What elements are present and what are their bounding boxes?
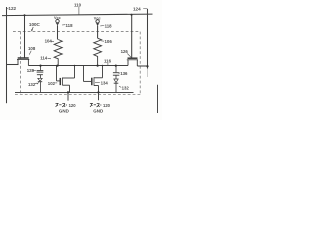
svg-text:104: 104 [45,39,53,44]
wire GND rail [15,92,134,94]
label pad katakana left (アース-) [56,103,68,107]
node dot border/Q126 [146,65,148,67]
transistor Q126 (top right) [127,58,138,66]
power Vcc right [96,20,99,39]
node dot 116/R106 [97,65,99,67]
svg-text:136: 136 [120,71,128,76]
svg-text:Vcc: Vcc [94,16,101,20]
lead for label 102 [55,82,57,84]
resistor R104 [54,40,62,66]
lead for label 122 [7,7,9,9]
diode D132 left [38,78,42,92]
stray vertical line bottom right [157,85,159,113]
svg-text:132: 132 [28,82,36,87]
lead for label 106 [101,40,104,42]
lead for label 118 left [62,24,65,26]
capacitor C136 (right stack) [113,66,119,80]
svg-text:120: 120 [69,103,77,108]
lead for label 118 right [100,25,104,27]
node dot rail/GND left [67,91,69,93]
svg-text:110: 110 [74,2,82,7]
svg-text:118: 118 [66,23,74,28]
svg-text:Vcc: Vcc [54,16,61,20]
svg-text:102: 102 [48,81,56,86]
wire Q126 right leg to border [137,65,147,67]
wire rail to Q108 gate [24,15,26,58]
svg-text:118: 118 [105,24,113,29]
transistor Q134 [84,66,103,93]
svg-text:132: 132 [122,85,130,90]
lead for label 100C (arrow) [32,27,33,30]
power Vcc left [56,19,59,39]
node dot 116/C128 [39,65,41,67]
wire left stub to Q108 [7,64,19,66]
node dot rail/Q126 [131,14,133,16]
text labels [8,2,141,113]
node dot rail/Q108 [24,14,26,16]
lead for label 136 [118,72,120,74]
node dot rail/GND right [97,91,99,93]
chip 100C dashed box [13,32,141,95]
svg-text:106: 106 [105,39,113,44]
svg-text:128: 128 [27,68,35,73]
node dot 116/Q102 drain [74,65,76,67]
svg-text:126: 126 [121,49,129,54]
lead for label 134 [95,82,100,84]
label pad katakana right (アース-) [90,103,101,107]
resistor R106 [94,38,102,65]
lead for label 110 [78,7,80,15]
svg-text:122: 122 [8,6,16,11]
svg-text:GND: GND [59,109,70,114]
wire top rail 112 [2,14,153,16]
wire rail to Q126 gate [131,15,133,58]
node dot 116/Q134 drain [102,65,104,67]
lead for label 126 [127,54,131,58]
svg-text:120: 120 [103,103,111,108]
svg-text:114: 114 [40,56,48,61]
lead for label 132 left (arrow) [35,82,37,85]
lead for label 124 [143,8,147,10]
svg-text:108: 108 [28,46,36,51]
lead for label 114 [48,57,51,60]
lead for label 128 [32,69,36,71]
lead for label 116 [107,63,109,66]
transistor Q102 [57,66,75,93]
wire left border 122 [6,7,8,103]
svg-text:134: 134 [101,81,109,86]
wire right border 124 [147,9,149,69]
transistor Q108 [17,58,29,66]
svg-text:100C: 100C [29,22,41,27]
wire node 116 horizontal [28,65,128,67]
wire GND pad stub left [67,93,69,101]
svg-text:GND: GND [93,109,104,114]
svg-text:116: 116 [104,59,112,64]
svg-text:124: 124 [133,7,141,12]
diode D132 right [114,79,119,93]
lead for label 132 right [119,86,121,87]
node dot 116/R104 [56,65,58,67]
wire GND pad stub right [98,93,100,101]
node dot 116/C136 [115,65,117,67]
lead for label 108 [29,51,31,55]
capacitor C128 (left stack) [37,66,44,79]
lead for label 104 [51,40,54,43]
